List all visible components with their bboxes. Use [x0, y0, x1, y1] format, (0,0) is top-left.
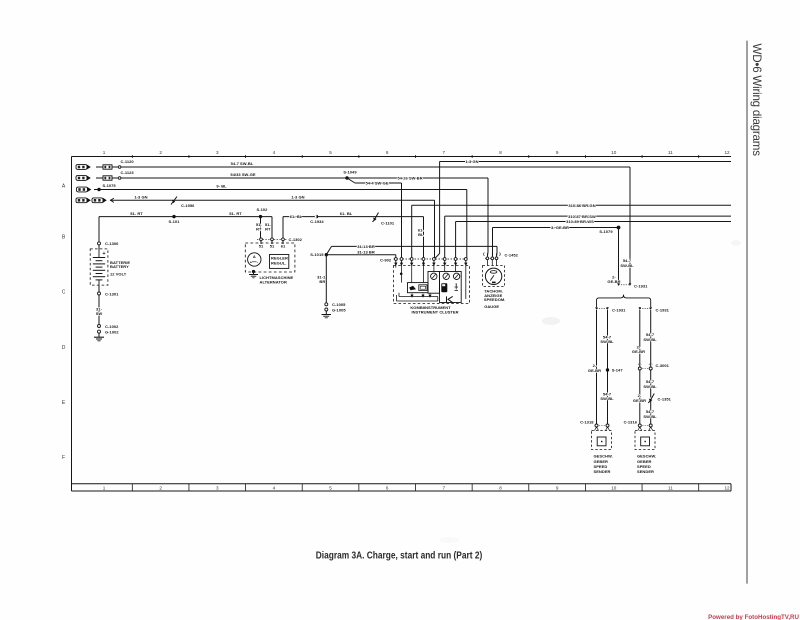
- svg-text:51: 51: [270, 243, 275, 248]
- svg-text:GE-BR: GE-BR: [633, 398, 646, 403]
- gauge circle 3: [453, 273, 459, 279]
- svg-text:310-89 BR-WS: 310-89 BR-WS: [566, 219, 594, 224]
- in-line connector C-1101: [373, 213, 379, 223]
- svg-text:12: 12: [724, 150, 730, 155]
- svg-text:1: 1: [103, 150, 106, 155]
- connector G-1002: [98, 330, 101, 333]
- wire 54-26 SW-BR: [347, 177, 488, 179]
- svg-text:61- BL: 61- BL: [290, 214, 303, 219]
- row letters A-F: [62, 184, 66, 462]
- svg-text:1: 1: [103, 486, 106, 491]
- connector C-1005: [325, 303, 328, 306]
- gauge circle 2: [443, 273, 449, 279]
- svg-text:GAUGE: GAUGE: [484, 304, 499, 309]
- splice S-1075: [94, 189, 98, 191]
- wire battery negative: [98, 285, 100, 292]
- wire right pair b: [650, 310, 652, 367]
- tach pins drop: [486, 260, 488, 266]
- vertical from S-1079: [618, 228, 620, 284]
- wire 31 SW: [98, 295, 100, 325]
- svg-text:3: 3: [216, 150, 219, 155]
- svg-text:SENDER: SENDER: [594, 469, 611, 474]
- svg-text:S-1049: S-1049: [343, 169, 357, 174]
- svg-text:8: 8: [499, 150, 502, 155]
- border frame left: [71, 157, 73, 492]
- instrument cluster box: [394, 266, 470, 304]
- vertical 54-4 to C-902 pin2: [401, 183, 403, 258]
- vertical 9-BL to C-902 pin8: [466, 190, 468, 259]
- speedometer circle: [485, 268, 501, 284]
- connector C-3001: [638, 364, 653, 370]
- svg-text:1-3 GN: 1-3 GN: [291, 195, 304, 200]
- svg-text:A: A: [253, 254, 256, 259]
- wire 54-7 SW-BL top: [121, 166, 630, 168]
- svg-text:ALTERNATOR: ALTERNATOR: [260, 280, 287, 285]
- vertical 31-13 to C-1452 pin3: [496, 246, 498, 253]
- svg-text:1-3 GN: 1-3 GN: [134, 195, 147, 200]
- splice S-101: [172, 215, 175, 218]
- svg-text:61- BL: 61- BL: [340, 211, 353, 216]
- svg-text:SW-BL: SW-BL: [620, 263, 634, 268]
- border frame bottom band: [72, 483, 732, 485]
- svg-text:BL: BL: [418, 232, 424, 237]
- svg-text:C-1452: C-1452: [505, 253, 519, 258]
- svg-text:BR: BR: [319, 279, 325, 284]
- svg-text:C-1123: C-1123: [121, 170, 135, 175]
- svg-text:10: 10: [611, 150, 617, 155]
- connector C-1301: [98, 292, 101, 295]
- svg-text:C-1934: C-1934: [310, 219, 324, 224]
- svg-text:1-3 GN: 1-3 GN: [465, 159, 478, 164]
- wire 51-RT drop a: [260, 217, 262, 239]
- chevron: [111, 198, 114, 202]
- svg-text:G-1002: G-1002: [105, 329, 119, 334]
- svg-text:C-902: C-902: [380, 257, 392, 262]
- vertical 54-26 to C-1452 pin1: [487, 178, 489, 252]
- svg-text:Powered by FotoHostingTV,RU: Powered by FotoHostingTV,RU: [708, 614, 799, 620]
- svg-text:C-3001: C-3001: [656, 363, 670, 368]
- svg-text:C: C: [62, 290, 66, 296]
- svg-text:SW-BL: SW-BL: [643, 384, 657, 389]
- svg-text:310-87 BR-SW: 310-87 BR-SW: [568, 214, 596, 219]
- connector C-1002: [98, 325, 101, 328]
- icon temp: [455, 284, 459, 291]
- harness split brace: [597, 295, 651, 307]
- svg-text:S-1079: S-1079: [599, 229, 613, 234]
- connector C-1452: [484, 253, 501, 260]
- svg-text:2: 2: [159, 150, 162, 155]
- svg-text:6: 6: [386, 486, 389, 491]
- border frame top: [72, 156, 732, 158]
- svg-text:S-102: S-102: [257, 207, 269, 212]
- column ticks: [132, 155, 698, 491]
- svg-text:BATTERY: BATTERY: [110, 264, 129, 269]
- alternator ground: [252, 270, 255, 273]
- tach dashed box: [483, 266, 505, 287]
- svg-text:INSTRUMENT CLUSTER: INSTRUMENT CLUSTER: [411, 310, 458, 315]
- off-page arrow row1: [76, 165, 91, 170]
- svg-text:S-1075: S-1075: [103, 183, 117, 188]
- off-page arrow row2: [76, 176, 91, 181]
- svg-text:54-26 SW-BR: 54-26 SW-BR: [397, 176, 422, 181]
- ground G1002: [98, 333, 100, 337]
- svg-text:C-1931: C-1931: [634, 284, 648, 289]
- svg-text:3: 3: [216, 486, 219, 491]
- svg-text:6: 6: [386, 150, 389, 155]
- splice S-102: [259, 215, 262, 218]
- svg-text:7: 7: [443, 150, 446, 155]
- svg-text:SENDER: SENDER: [637, 469, 654, 474]
- vertical 54-7 down at x630: [629, 167, 631, 284]
- splice S-1079: [617, 226, 621, 230]
- svg-text:C-1931: C-1931: [612, 307, 626, 312]
- wire left pair b: [607, 310, 609, 424]
- svg-text:D: D: [62, 345, 66, 351]
- cluster internal bus: [399, 296, 438, 298]
- corner to battery: [98, 217, 100, 242]
- wire 54-4 SW-GE branch: [347, 178, 355, 183]
- svg-text:51- RT: 51- RT: [229, 211, 242, 216]
- speed sender left box: [592, 431, 612, 450]
- connector C-1302 row: [257, 238, 287, 240]
- svg-text:SW-BL: SW-BL: [643, 414, 657, 419]
- icon fuel gauge: [441, 283, 447, 292]
- svg-text:C-1931: C-1931: [656, 307, 670, 312]
- wire 9-BL: [99, 189, 467, 191]
- svg-text:C-1316: C-1316: [624, 419, 638, 424]
- wire 61-BL: [283, 216, 424, 218]
- svg-text:12: 12: [724, 486, 730, 491]
- svg-text:Diagram 3A. Charge, start and: Diagram 3A. Charge, start and run (Part …: [316, 551, 483, 562]
- svg-text:31-13 BR: 31-13 BR: [357, 244, 375, 249]
- svg-text:51- RT: 51- RT: [130, 211, 143, 216]
- svg-text:12 VOLT: 12 VOLT: [110, 271, 127, 276]
- svg-text:GE-BR: GE-BR: [632, 349, 645, 354]
- svg-text:SW: SW: [96, 311, 103, 316]
- wire 310-89 BR-WS: [455, 222, 457, 259]
- fuse S row1: [96, 166, 103, 168]
- svg-text:31-13 BR: 31-13 BR: [357, 249, 375, 254]
- wire 51-RT bus: [99, 216, 272, 218]
- battery plates: [93, 249, 105, 285]
- wire 1-3 GN top long: [440, 161, 731, 163]
- off-page arrow row4b: [92, 198, 107, 203]
- wire 31-13 BR upper: [326, 246, 331, 254]
- wire 3-GE-BR: [493, 227, 619, 229]
- connector C-1306: [98, 242, 101, 245]
- svg-text:10: 10: [611, 486, 617, 491]
- svg-text:SPEEDOM.: SPEEDOM.: [484, 297, 506, 302]
- svg-text:54-7 SW-BL: 54-7 SW-BL: [231, 161, 254, 166]
- wire right pair a: [639, 310, 641, 367]
- svg-text:C-1318: C-1318: [580, 419, 594, 424]
- svg-text:RT: RT: [265, 226, 271, 231]
- regulator box REGLER: [270, 255, 289, 269]
- alternator dashed box: [245, 243, 295, 272]
- splice S-147: [606, 368, 609, 371]
- svg-text:S-1015: S-1015: [310, 252, 324, 257]
- in-line connector C-1956: [171, 197, 177, 205]
- wire 310-86 BR-GN: [411, 205, 413, 258]
- icon battery telltale: [409, 286, 416, 290]
- svg-text:2: 2: [159, 486, 162, 491]
- off-page arrow row4a: [76, 198, 91, 203]
- ground G1005: [325, 311, 327, 315]
- svg-text:RT: RT: [256, 226, 262, 231]
- svg-text:SW-BL: SW-BL: [600, 339, 614, 344]
- gauge box A: [428, 272, 440, 294]
- connector G-1005: [325, 308, 328, 311]
- svg-text:9- BL: 9- BL: [216, 184, 227, 189]
- svg-text:S-101: S-101: [169, 219, 181, 224]
- connector C-1931 left pair: [595, 307, 609, 310]
- wire 61-BL riser: [282, 217, 284, 239]
- wire 310-87 BR-SW: [444, 216, 446, 258]
- splice S-1049: [345, 176, 348, 179]
- svg-text:C-1101: C-1101: [381, 220, 395, 225]
- wire 31-1 BR to ground: [325, 255, 327, 303]
- vertical 61-BL to C-902 pin4: [423, 217, 425, 258]
- gauge box B: [440, 272, 462, 303]
- svg-text:5: 5: [329, 150, 332, 155]
- svg-text:GE-BR: GE-BR: [588, 368, 601, 373]
- wire left pair a: [596, 310, 598, 424]
- svg-text:54/33 SW-GE: 54/33 SW-GE: [230, 172, 255, 177]
- svg-text:C-1956: C-1956: [181, 203, 195, 208]
- svg-text:3- GE-BR: 3- GE-BR: [551, 225, 569, 230]
- connector C-1931 main: [617, 283, 631, 286]
- svg-text:C-1306: C-1306: [105, 241, 119, 246]
- connector C-1931 right pair: [639, 307, 653, 310]
- icon box telltale: [419, 285, 427, 291]
- column numbers top: [103, 150, 730, 155]
- svg-text:G-1005: G-1005: [332, 307, 346, 312]
- svg-text:F: F: [62, 455, 65, 461]
- column numbers bottom: [103, 486, 730, 491]
- telltale box C: [408, 283, 429, 293]
- cluster inner drops: [401, 261, 403, 283]
- wire 1-3 GN left: [110, 199, 435, 201]
- vertical from 1-3 GN top: [439, 162, 441, 254]
- wire 54/33 SW-GE: [121, 177, 347, 179]
- connector C-1123: [118, 177, 121, 180]
- K marking: [447, 296, 453, 302]
- svg-text:61: 61: [281, 243, 286, 248]
- scan smudge: [542, 317, 560, 325]
- svg-text:C-1351: C-1351: [658, 397, 672, 402]
- svg-text:+: +: [102, 251, 105, 257]
- wire 51-RT drop b: [271, 217, 273, 239]
- svg-text:54-4 SW-GE: 54-4 SW-GE: [365, 181, 388, 186]
- svg-text:C-1002: C-1002: [105, 324, 119, 329]
- svg-text:11: 11: [668, 150, 673, 155]
- svg-text:310-86 BR-GN: 310-86 BR-GN: [568, 203, 595, 208]
- svg-text:4: 4: [273, 150, 276, 155]
- wires below C-3001: [639, 370, 641, 424]
- svg-text:REGUL.: REGUL.: [271, 261, 286, 266]
- svg-text:11: 11: [668, 486, 673, 491]
- svg-text:C-1120: C-1120: [121, 159, 135, 164]
- svg-text:WD•6 Wiring diagrams: WD•6 Wiring diagrams: [750, 44, 763, 157]
- sidebar rule: [746, 41, 748, 584]
- svg-text:SW-BL: SW-BL: [600, 396, 614, 401]
- fuse S row2: [96, 177, 103, 179]
- in-line connector C-1351: [648, 394, 654, 404]
- svg-text:51: 51: [259, 243, 264, 248]
- svg-text:4: 4: [273, 486, 276, 491]
- svg-text:SW-BL: SW-BL: [643, 337, 657, 342]
- vertical 1-3 GN to C-902 pin5: [434, 200, 436, 258]
- svg-text:C-1301: C-1301: [105, 291, 119, 296]
- svg-text:8: 8: [499, 486, 502, 491]
- gauge circle 1: [431, 273, 437, 279]
- in-line connector C-1934: [315, 215, 318, 218]
- wire 31-13 BR lower: [326, 254, 396, 256]
- svg-text:5: 5: [329, 486, 332, 491]
- battery B1 dashed box: [90, 249, 108, 285]
- svg-text:9: 9: [556, 486, 559, 491]
- splice S-1015: [325, 253, 328, 256]
- svg-text:9: 9: [556, 150, 559, 155]
- speed sender right box: [635, 431, 655, 450]
- generator symbol: [248, 253, 261, 266]
- off-page arrow row3: [77, 187, 92, 192]
- svg-text:7: 7: [443, 486, 446, 491]
- connector C-1120: [118, 166, 121, 169]
- svg-text:C-1302: C-1302: [289, 237, 303, 242]
- svg-text:S-147: S-147: [612, 368, 624, 373]
